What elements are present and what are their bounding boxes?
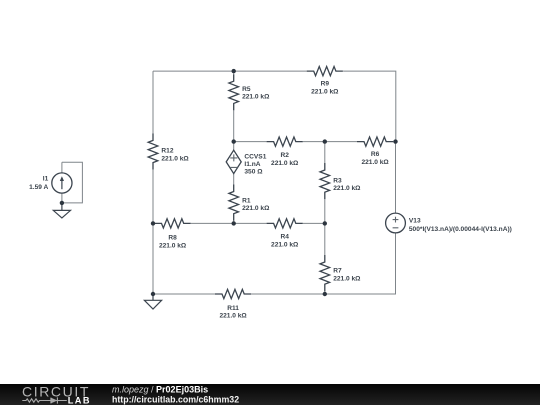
node: R7 / bottom bus [323, 292, 327, 296]
svg-text:221.0 kΩ: 221.0 kΩ [159, 242, 187, 249]
wire top bus right segment + right drop [344, 71, 396, 142]
svg-text:221.0 kΩ: 221.0 kΩ [271, 160, 299, 167]
wire left vertical lower [152, 170, 154, 294]
wire bottom bus right + V13 drop [325, 233, 396, 294]
resistor R2 [234, 141, 267, 143]
resistor R9 [234, 70, 307, 72]
svg-text:350 Ω: 350 Ω [244, 168, 263, 175]
node: R5/R2/CCVS1 [232, 139, 236, 143]
current source I1 [62, 162, 83, 203]
svg-text:R4: R4 [280, 234, 289, 241]
svg-text:R12: R12 [161, 148, 173, 155]
resistor R12 [148, 133, 158, 169]
svg-text:I1: I1 [43, 175, 49, 182]
node: R8/R1/R4 [232, 221, 236, 225]
svg-text:CCVS1: CCVS1 [244, 154, 266, 161]
svg-text:R7: R7 [333, 268, 342, 275]
svg-text:221.0 kΩ: 221.0 kΩ [242, 205, 270, 212]
node: left vertical / R8 [151, 221, 155, 225]
resistor R4 [234, 222, 267, 224]
svg-text:R3: R3 [333, 177, 342, 184]
node: R2/R3/R6 [323, 139, 327, 143]
svg-text:R5: R5 [242, 86, 251, 93]
svg-text:LAB: LAB [68, 395, 91, 405]
svg-text:221.0 kΩ: 221.0 kΩ [361, 159, 389, 166]
svg-text:221.0 kΩ: 221.0 kΩ [161, 155, 189, 162]
resistor R11 [153, 293, 215, 295]
svg-text:R9: R9 [321, 81, 330, 88]
svg-text:1.59 A: 1.59 A [29, 184, 48, 191]
resistor R7 [324, 223, 326, 255]
resistor R6 [325, 141, 357, 143]
svg-text:221.0 kΩ: 221.0 kΩ [333, 185, 361, 192]
logo resistor-diode glyph [22, 397, 67, 403]
svg-text:221.0 kΩ: 221.0 kΩ [242, 94, 270, 101]
svg-text:R6: R6 [371, 151, 380, 158]
voltage source V13 [395, 142, 397, 240]
node: top bus / R5 [232, 69, 236, 73]
footer bar [0, 384, 540, 405]
svg-text:221.0 kΩ: 221.0 kΩ [219, 313, 247, 320]
svg-text:m.lopezg / Pr02Ej03Bis: m.lopezg / Pr02Ej03Bis [112, 384, 208, 394]
svg-text:R2: R2 [280, 152, 289, 159]
node: I1 / ground [60, 201, 64, 205]
svg-text:500*I(V13.nA)/(0.00044-I(V13.n: 500*I(V13.nA)/(0.00044-I(V13.nA)) [409, 226, 512, 233]
resistor R8 [153, 222, 155, 224]
wire top bus [153, 70, 234, 72]
resistor R1 [229, 185, 239, 221]
resistor R5 [233, 71, 235, 74]
resistor R3 [324, 142, 326, 163]
node: R6/V13/top-right [393, 139, 397, 143]
svg-text:http://circuitlab.com/c6hmm32: http://circuitlab.com/c6hmm32 [112, 395, 239, 405]
svg-text:221.0 kΩ: 221.0 kΩ [271, 241, 299, 248]
svg-text:I1.nA: I1.nA [244, 161, 260, 168]
svg-text:R1: R1 [242, 197, 251, 204]
ground (bottom left) [144, 294, 161, 309]
svg-text:R8: R8 [168, 235, 177, 242]
svg-text:221.0 kΩ: 221.0 kΩ [311, 88, 339, 95]
ground (below I1) [53, 203, 70, 218]
node: bottom-left ground [151, 292, 155, 296]
svg-text:R11: R11 [227, 305, 239, 312]
svg-text:V13: V13 [409, 217, 421, 224]
wire left vertical [152, 71, 154, 133]
dependent source CCVS1 [233, 142, 235, 185]
node: R4/R3/R7 [323, 221, 327, 225]
svg-text:221.0 kΩ: 221.0 kΩ [333, 276, 361, 283]
